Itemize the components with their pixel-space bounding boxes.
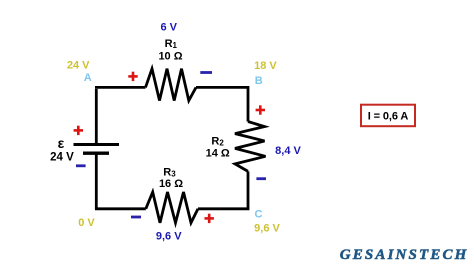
svg-text:14 Ω: 14 Ω [206,148,230,160]
wire bottom (node C to R3) [198,207,249,210]
svg-text:I = 0,6 A: I = 0,6 A [368,111,409,123]
svg-text:C: C [255,208,263,220]
polarity - at battery bottom [76,164,86,167]
polarity + at battery top [74,126,83,135]
svg-text:16 Ω: 16 Ω [159,178,183,190]
svg-text:GESAINSTECH: GESAINSTECH [340,247,468,263]
svg-text:ε: ε [58,135,65,151]
resistor R3 16 ohm [146,192,198,223]
wire left vertical (node A to battery +) [95,89,98,144]
svg-text:0 V: 0 V [78,217,95,229]
polarity + at R3 right [205,214,214,223]
resistor R2 14 ohm [235,122,266,172]
polarity + at R2 top [256,105,265,114]
svg-text:B: B [255,75,263,87]
battery positive plate (long) [74,143,120,146]
polarity - at R2 bottom [256,177,266,180]
polarity - at R3 left [131,216,141,219]
svg-text:A: A [84,72,92,84]
svg-text:9,6 V: 9,6 V [254,223,280,235]
svg-text:R1: R1 [165,38,178,50]
wire top (node A to R1) [95,86,146,89]
svg-text:24 V: 24 V [50,151,74,163]
svg-text:R2: R2 [211,135,224,147]
svg-text:R3: R3 [163,166,176,178]
wire right vertical (node B to R2) [247,86,250,122]
wire top (R1 to node B) [196,86,248,89]
current box I = 0,6 A [361,105,415,127]
polarity + at R1 left [128,72,137,81]
svg-text:18 V: 18 V [254,60,277,72]
wire left vertical (battery - to bottom corner) [95,153,98,209]
battery negative plate (short) [83,151,109,154]
polarity - at R1 right [200,71,212,74]
svg-text:6 V: 6 V [160,21,177,33]
svg-text:10 Ω: 10 Ω [158,51,182,63]
wire bottom (R3 to bottom-left corner) [95,207,146,210]
wire right vertical (R2 to node C) [247,171,250,209]
svg-text:9,6 V: 9,6 V [156,231,182,243]
svg-text:24 V: 24 V [67,60,90,72]
svg-text:8,4 V: 8,4 V [275,145,301,157]
resistor R1 10 ohm [146,69,197,101]
